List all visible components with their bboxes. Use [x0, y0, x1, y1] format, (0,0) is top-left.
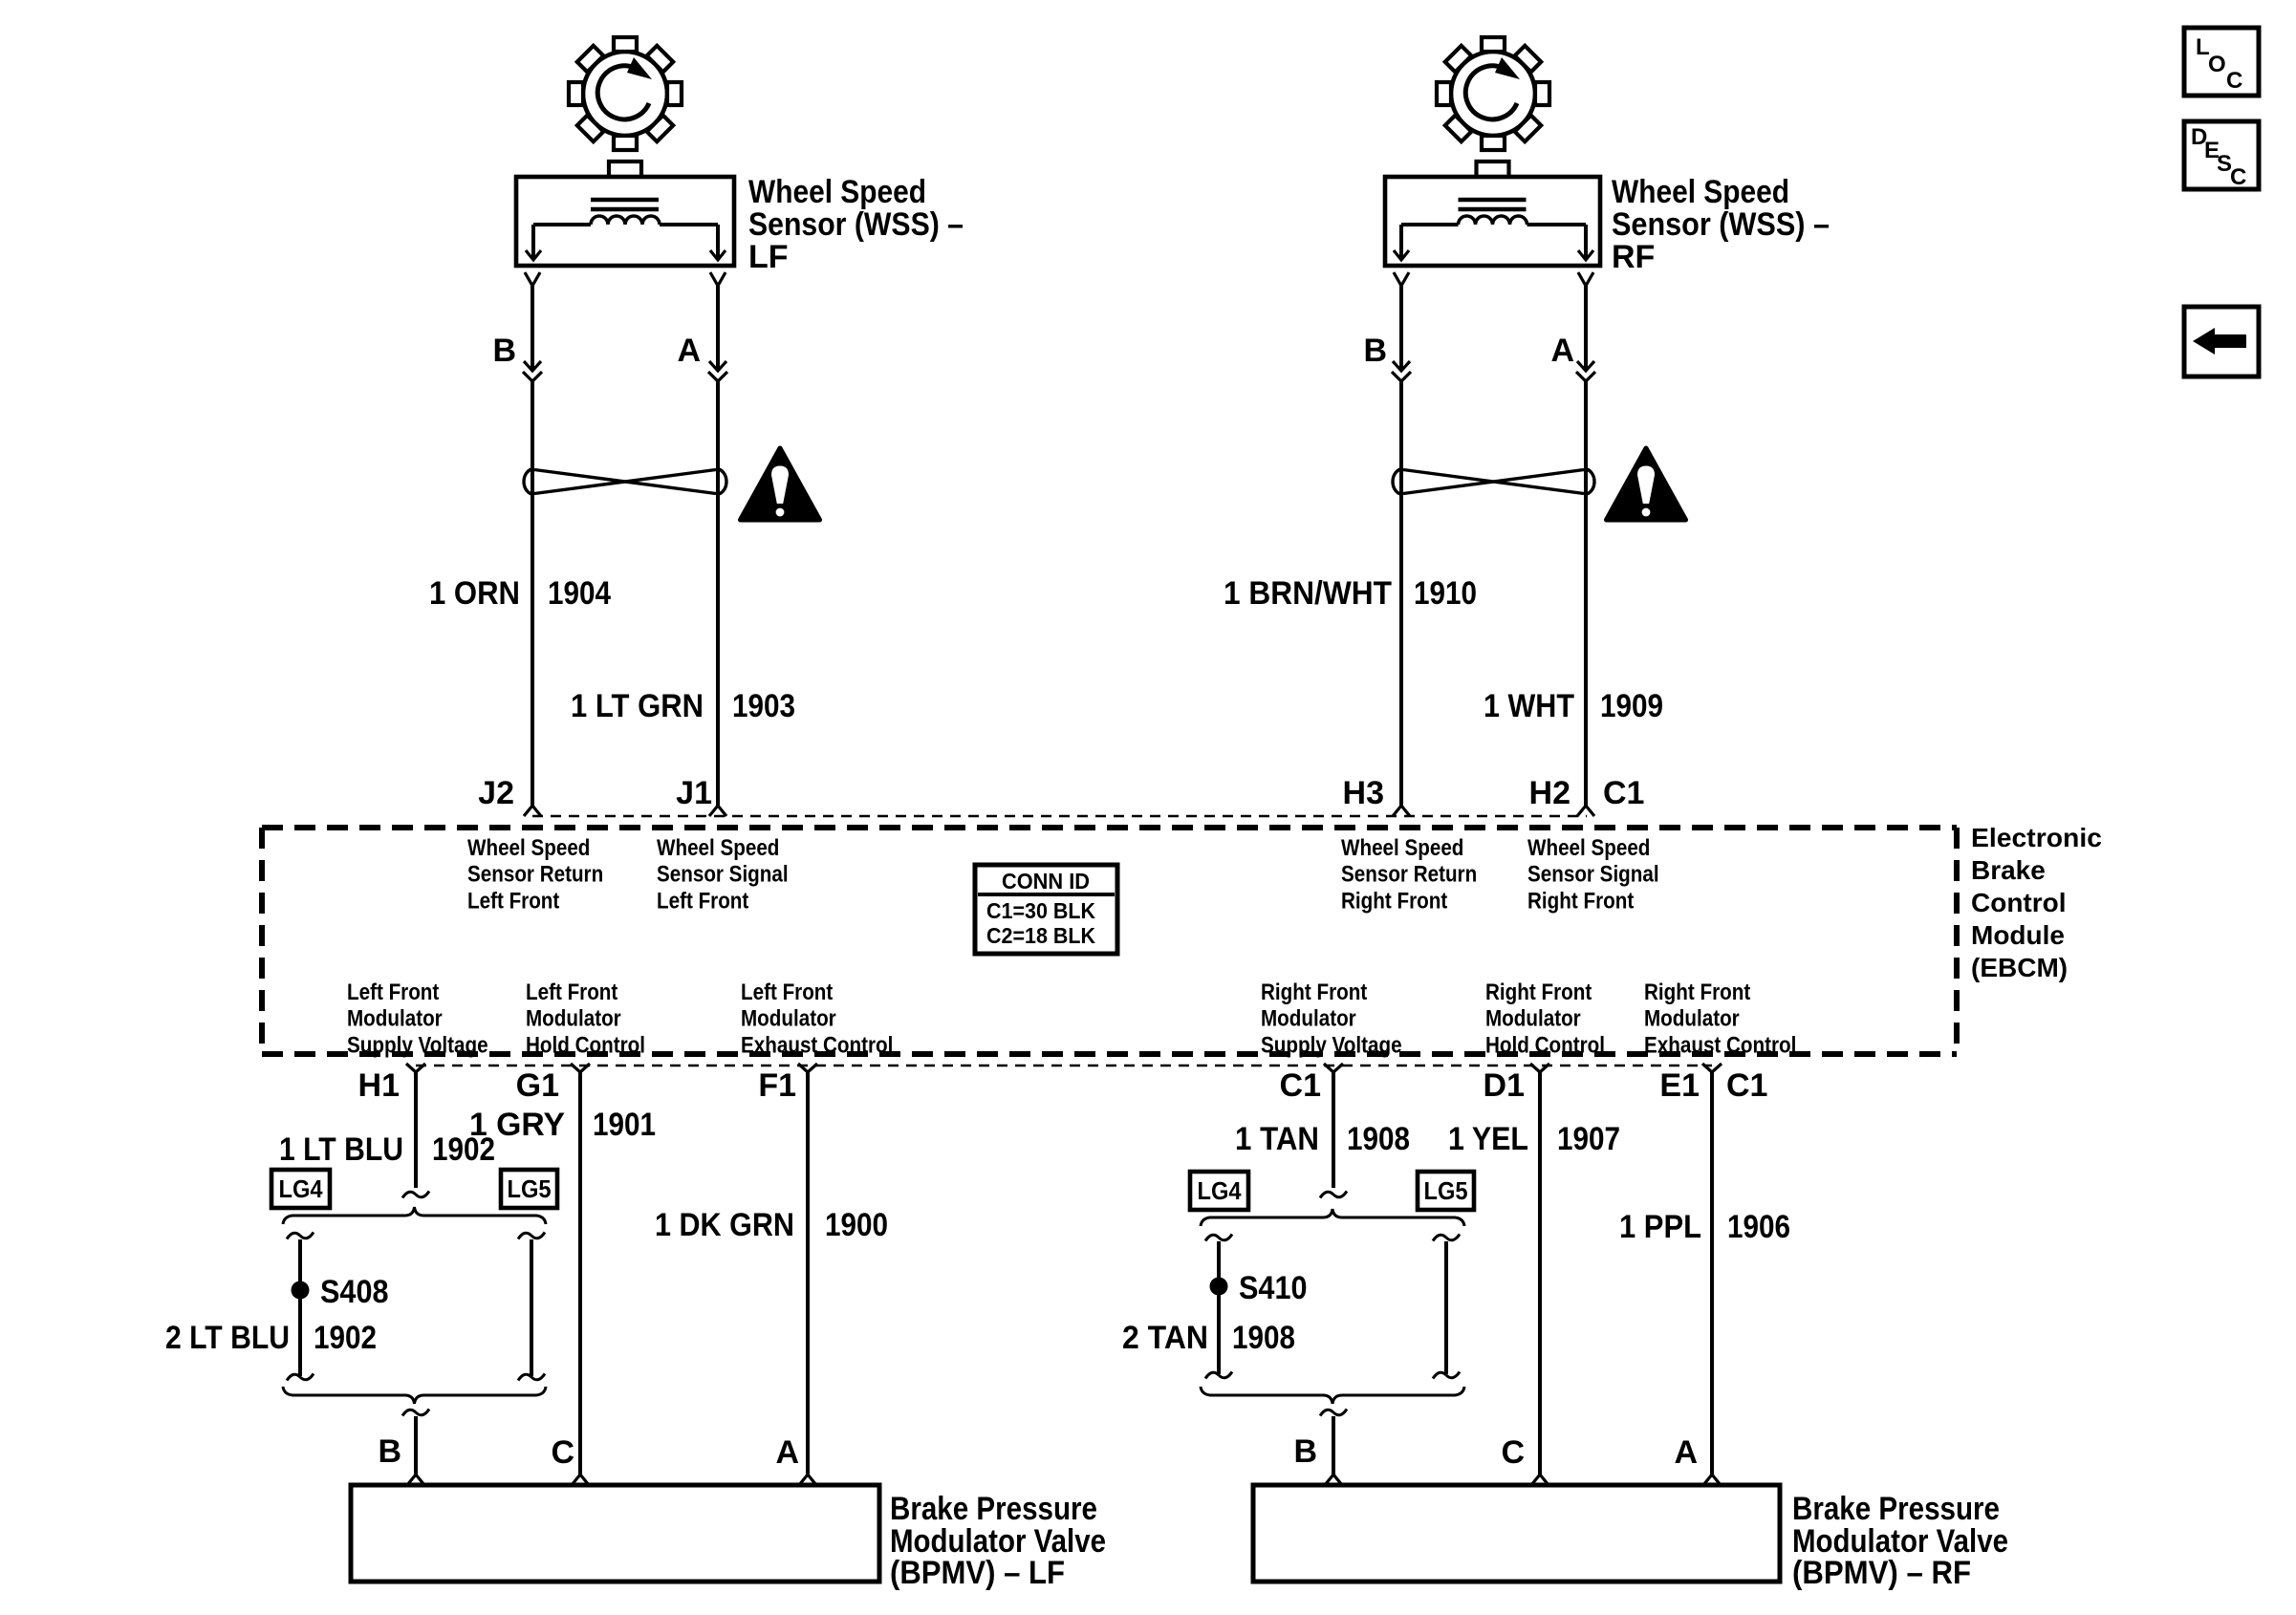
wire label 1 TAN 1908	[1235, 1121, 1410, 1157]
svg-text:B: B	[378, 1433, 401, 1470]
svg-text:C1: C1	[1280, 1067, 1321, 1104]
label: LF modulator hold (G1)	[526, 980, 645, 1058]
svg-text:(EBCM): (EBCM)	[1971, 953, 2068, 982]
wire F1 (1 DK GRN 1900)	[799, 1072, 816, 1485]
svg-text:C1=30 BLK: C1=30 BLK	[986, 898, 1095, 923]
svg-text:Supply Voltage: Supply Voltage	[347, 1032, 488, 1058]
svg-text:Exhaust Control: Exhaust Control	[1644, 1032, 1796, 1058]
svg-text:1908: 1908	[1347, 1121, 1410, 1157]
svg-text:J1: J1	[676, 775, 712, 811]
svg-text:A: A	[1550, 333, 1574, 369]
svg-text:J2: J2	[478, 775, 514, 811]
label: WSS signal LF (J1)	[657, 835, 789, 914]
connector forks below WSS RF	[1394, 272, 1593, 286]
svg-text:Left Front: Left Front	[741, 980, 833, 1005]
label: LF modulator supply (H1)	[347, 980, 488, 1058]
wire label 1 LT GRN 1903	[571, 688, 795, 724]
BPMV RF box	[1253, 1485, 1780, 1582]
svg-text:1904: 1904	[548, 575, 611, 612]
DESC nav box	[2184, 121, 2259, 190]
branch wire left (via LG4)	[287, 1233, 314, 1381]
svg-text:1909: 1909	[1600, 688, 1663, 724]
pin E1	[1659, 1064, 1722, 1104]
wire label 2 TAN 1908	[1122, 1320, 1295, 1356]
wire label 1 PPL 1906	[1619, 1209, 1790, 1245]
svg-text:Modulator: Modulator	[526, 1006, 621, 1032]
wire D1 (1 YEL 1907)	[1531, 1072, 1549, 1485]
BPMV RF label	[1792, 1491, 2008, 1591]
grommet LG5 (right)	[1418, 1172, 1474, 1210]
svg-text:1900: 1900	[825, 1207, 888, 1243]
svg-text:Supply Voltage: Supply Voltage	[1261, 1032, 1402, 1058]
BPMV LF label	[890, 1491, 1106, 1591]
splice S408	[292, 1274, 389, 1310]
svg-text:1903: 1903	[732, 688, 795, 724]
warning triangle RF	[1607, 448, 1686, 520]
svg-text:Hold Control: Hold Control	[1485, 1032, 1605, 1058]
svg-text:Left Front: Left Front	[347, 980, 439, 1005]
svg-text:Wheel Speed: Wheel Speed	[467, 835, 590, 861]
svg-text:C1: C1	[1603, 775, 1644, 811]
tone ring LF	[569, 37, 682, 150]
warning triangle LF	[741, 448, 820, 520]
svg-text:B: B	[492, 333, 516, 369]
svg-text:Right Front: Right Front	[1341, 888, 1447, 914]
svg-text:1906: 1906	[1727, 1209, 1790, 1245]
svg-text:D1: D1	[1484, 1067, 1525, 1104]
svg-text:Right Front: Right Front	[1485, 980, 1592, 1005]
svg-text:H1: H1	[358, 1067, 400, 1104]
tone ring RF	[1437, 37, 1549, 150]
svg-text:1 PPL: 1 PPL	[1619, 1209, 1701, 1245]
wire label 1 LT BLU 1902	[279, 1131, 495, 1168]
svg-text:1 WHT: 1 WHT	[1484, 688, 1574, 724]
label: WSS return LF (J2)	[467, 835, 603, 914]
svg-text:1901: 1901	[593, 1107, 656, 1143]
svg-text:Wheel Speed: Wheel Speed	[748, 174, 926, 210]
svg-text:Left Front: Left Front	[657, 888, 748, 914]
wire B to BPMV LF	[402, 1410, 429, 1486]
svg-text:(BPMV) – RF: (BPMV) – RF	[1792, 1555, 1971, 1591]
svg-text:1908: 1908	[1232, 1320, 1295, 1356]
svg-text:O: O	[2208, 52, 2226, 77]
label: WSS return RF (H3)	[1341, 835, 1477, 914]
svg-text:Brake Pressure: Brake Pressure	[890, 1491, 1097, 1527]
svg-text:Sensor Return: Sensor Return	[467, 862, 603, 888]
svg-text:E1: E1	[1659, 1067, 1700, 1104]
twisted pair symbol RF	[1393, 469, 1594, 495]
connector forks below WSS LF	[525, 272, 726, 286]
svg-text:1 LT BLU: 1 LT BLU	[279, 1131, 403, 1168]
svg-text:Control: Control	[1971, 888, 2067, 917]
svg-text:Wheel Speed: Wheel Speed	[1341, 835, 1463, 861]
wire E1 (1 PPL 1906)	[1703, 1072, 1721, 1485]
wire label 1 YEL 1907	[1448, 1121, 1620, 1157]
grommet LG4 (left)	[271, 1170, 330, 1208]
svg-text:2 LT BLU: 2 LT BLU	[165, 1320, 290, 1356]
overbrace (right split)	[1201, 1209, 1464, 1226]
svg-text:Sensor Signal: Sensor Signal	[657, 862, 789, 888]
underbrace (left join)	[283, 1387, 546, 1404]
svg-text:B: B	[1363, 333, 1387, 369]
svg-text:1907: 1907	[1557, 1121, 1620, 1157]
svg-text:1902: 1902	[314, 1320, 377, 1356]
branch wire right (via LG5)	[518, 1233, 545, 1381]
pin F1	[758, 1064, 817, 1104]
svg-text:A: A	[1674, 1434, 1698, 1471]
BPMV LF box	[351, 1485, 879, 1582]
branch wire right (via LG5 right)	[1433, 1235, 1460, 1379]
EBCM label	[1971, 823, 2102, 982]
wire A RF (1 WHT 1909)	[1576, 286, 1595, 806]
svg-text:A: A	[677, 333, 701, 369]
wheel speed sensor U-LF box	[516, 161, 734, 266]
svg-text:C: C	[1501, 1434, 1525, 1471]
svg-text:2 TAN: 2 TAN	[1122, 1320, 1208, 1356]
connector C2 boundary line (top, thin dashed)	[532, 815, 1587, 818]
svg-text:Right Front: Right Front	[1527, 888, 1634, 914]
wire label 1 DK GRN 1900	[655, 1207, 888, 1243]
svg-text:Right Front: Right Front	[1644, 980, 1750, 1005]
svg-text:LG4: LG4	[279, 1174, 323, 1203]
svg-text:Modulator: Modulator	[741, 1006, 836, 1032]
svg-text:Sensor (WSS) –: Sensor (WSS) –	[1612, 206, 1830, 243]
wire label 1 GRY 1901	[469, 1107, 656, 1143]
WSS LF label	[748, 174, 964, 275]
underbrace (right join)	[1201, 1387, 1464, 1404]
svg-text:LG4: LG4	[1198, 1176, 1242, 1205]
svg-text:Wheel Speed: Wheel Speed	[657, 835, 779, 861]
pin J2	[478, 775, 541, 816]
pin H2	[1529, 775, 1594, 816]
svg-text:A: A	[775, 1434, 799, 1471]
svg-text:C2=18 BLK: C2=18 BLK	[986, 923, 1095, 948]
pin D1	[1484, 1064, 1549, 1104]
svg-text:Right Front: Right Front	[1261, 980, 1367, 1005]
svg-text:B: B	[1293, 1433, 1317, 1470]
wire B RF (1 BRN/WHT 1910)	[1392, 286, 1411, 806]
svg-text:G1: G1	[516, 1067, 559, 1104]
connector boundary line (bottom, thin dashed)	[416, 1065, 1712, 1067]
wheel speed sensor U-RF box	[1385, 161, 1600, 266]
wire label 1 BRN/WHT 1910	[1224, 575, 1477, 612]
svg-text:1 ORN: 1 ORN	[429, 575, 520, 612]
twisted pair symbol LF	[524, 469, 726, 495]
pin H1	[358, 1064, 425, 1104]
svg-text:Sensor Return: Sensor Return	[1341, 862, 1477, 888]
svg-text:1 DK GRN: 1 DK GRN	[655, 1207, 794, 1243]
wire H1 stub (1 LT BLU)	[402, 1072, 429, 1198]
svg-text:Sensor (WSS) –: Sensor (WSS) –	[748, 206, 964, 243]
LOC nav box	[2184, 28, 2259, 96]
wire label 2 LT BLU 1902	[165, 1320, 377, 1356]
svg-text:H2: H2	[1529, 775, 1570, 811]
svg-text:C: C	[2230, 164, 2246, 190]
svg-text:Modulator: Modulator	[347, 1006, 443, 1032]
svg-text:F1: F1	[758, 1067, 796, 1104]
svg-text:LG5: LG5	[508, 1174, 552, 1203]
svg-text:Modulator: Modulator	[1261, 1006, 1356, 1032]
svg-text:Wheel Speed: Wheel Speed	[1527, 835, 1650, 861]
wire label 1 WHT 1909	[1484, 688, 1663, 724]
wire label 1 ORN 1904	[429, 575, 611, 612]
svg-text:H3: H3	[1343, 775, 1384, 811]
pin H3	[1343, 775, 1410, 816]
svg-text:Electronic: Electronic	[1971, 823, 2102, 852]
svg-text:S410: S410	[1239, 1270, 1308, 1306]
label: RF modulator exhaust (E1)	[1644, 980, 1796, 1058]
label: LF modulator exhaust (F1)	[741, 980, 893, 1058]
label: RF modulator hold (D1)	[1485, 980, 1605, 1058]
svg-text:1 BRN/WHT: 1 BRN/WHT	[1224, 575, 1392, 612]
WSS RF label	[1612, 174, 1830, 275]
svg-text:Exhaust Control: Exhaust Control	[741, 1032, 893, 1058]
svg-text:CONN ID: CONN ID	[1002, 869, 1090, 894]
wire C1 stub (1 TAN)	[1320, 1072, 1347, 1198]
svg-text:1910: 1910	[1414, 575, 1477, 612]
back arrow nav box	[2184, 307, 2259, 377]
svg-text:Brake: Brake	[1971, 855, 2046, 885]
svg-text:Left Front: Left Front	[526, 980, 617, 1005]
svg-text:C: C	[2226, 68, 2242, 94]
wire B to BPMV RF	[1320, 1410, 1347, 1486]
CONN ID table	[975, 865, 1117, 954]
pin J1	[676, 775, 726, 816]
branch wire left (via LG4 right)	[1205, 1235, 1232, 1379]
svg-text:RF: RF	[1612, 239, 1655, 275]
svg-text:Modulator: Modulator	[1644, 1006, 1740, 1032]
label: WSS signal RF (H2)	[1527, 835, 1659, 914]
overbrace (left split)	[283, 1207, 546, 1224]
svg-text:C: C	[551, 1434, 574, 1471]
svg-text:1902: 1902	[432, 1131, 495, 1168]
svg-text:Sensor Signal: Sensor Signal	[1527, 862, 1659, 888]
svg-text:LG5: LG5	[1424, 1176, 1468, 1205]
grommet LG4 (right)	[1190, 1172, 1248, 1210]
svg-text:Left Front: Left Front	[467, 888, 559, 914]
svg-text:LF: LF	[748, 239, 789, 275]
svg-text:1 LT GRN: 1 LT GRN	[571, 688, 704, 724]
svg-text:1 YEL: 1 YEL	[1448, 1121, 1528, 1157]
svg-text:Wheel Speed: Wheel Speed	[1612, 174, 1789, 210]
svg-text:C1: C1	[1726, 1067, 1767, 1104]
grommet LG5 (left)	[501, 1170, 557, 1208]
svg-text:Hold Control: Hold Control	[526, 1032, 645, 1058]
EBCM dashed outline	[262, 828, 1957, 1054]
svg-text:1 TAN: 1 TAN	[1235, 1121, 1319, 1157]
wire A LF (1 LT GRN 1903)	[708, 286, 727, 806]
splice S410	[1210, 1270, 1308, 1306]
svg-text:(BPMV) – LF: (BPMV) – LF	[890, 1555, 1065, 1591]
svg-text:Brake Pressure: Brake Pressure	[1792, 1491, 2000, 1527]
svg-text:Module: Module	[1971, 920, 2065, 950]
svg-text:S408: S408	[320, 1274, 389, 1310]
pin G1	[516, 1064, 590, 1104]
wire G1 (1 GRY 1901)	[572, 1072, 589, 1485]
wire B LF (1 ORN 1904)	[523, 286, 542, 806]
pin C1 (RF supply)	[1280, 1064, 1343, 1104]
label: RF modulator supply (C1)	[1261, 980, 1402, 1058]
svg-text:Modulator: Modulator	[1485, 1006, 1581, 1032]
